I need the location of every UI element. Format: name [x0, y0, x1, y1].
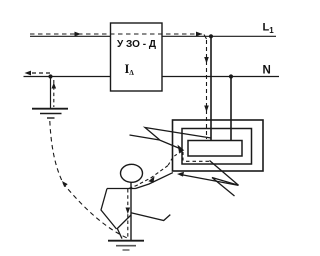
ground electrode (source earth) [32, 108, 68, 110]
person head [121, 164, 143, 182]
heating element [188, 141, 242, 157]
appliance outer case [173, 120, 264, 171]
person shoulder [107, 188, 136, 190]
dashed fault path exiting case [168, 152, 182, 166]
node junction N right [229, 74, 233, 78]
svg-text:У ЗО - Д: У ЗО - Д [117, 39, 156, 50]
wire feed from L1 to element [210, 36, 212, 140]
wire L1 dashed current path [30, 33, 202, 35]
node junction L1 [209, 34, 213, 38]
person right leg [131, 213, 170, 221]
RCD box U1 (УЗО-Д) [111, 23, 163, 91]
dashed current path down feed [204, 35, 207, 40]
breakdown bolt bottom [210, 161, 239, 197]
person body [130, 182, 132, 240]
arrow on earth return curve [62, 181, 68, 187]
arrow up on grounding path [52, 83, 57, 89]
person left arm [101, 189, 117, 230]
dashed earth return path curve [50, 121, 129, 239]
breakdown bolt left (element to case) [145, 128, 211, 140]
arrow down on feed path upper [204, 57, 209, 64]
wire feed from N to element [230, 77, 232, 141]
arrow down on body path [126, 208, 131, 215]
wire L1 [30, 35, 276, 37]
node junction N left [48, 74, 52, 78]
ground under feet [108, 240, 144, 242]
wire N right section [162, 76, 279, 78]
person right arm touching case [136, 173, 173, 189]
arrow on L1 right [196, 32, 203, 37]
dashed current path down body [127, 189, 129, 239]
arrow down on feed path lower [204, 106, 209, 113]
dashed return arrow on N [28, 72, 50, 74]
person left leg [117, 215, 131, 239]
arrow on L1 left [75, 32, 82, 37]
dashed current path up grounding conductor [53, 80, 55, 107]
arrow on arm path [148, 176, 154, 183]
appliance middle case [182, 129, 252, 165]
wire N left section [24, 76, 111, 78]
dashed fault path inside appliance [182, 152, 184, 162]
dashed current path along arm [129, 166, 168, 189]
wire grounding conductor left [50, 77, 52, 109]
svg-text:N: N [263, 65, 271, 77]
